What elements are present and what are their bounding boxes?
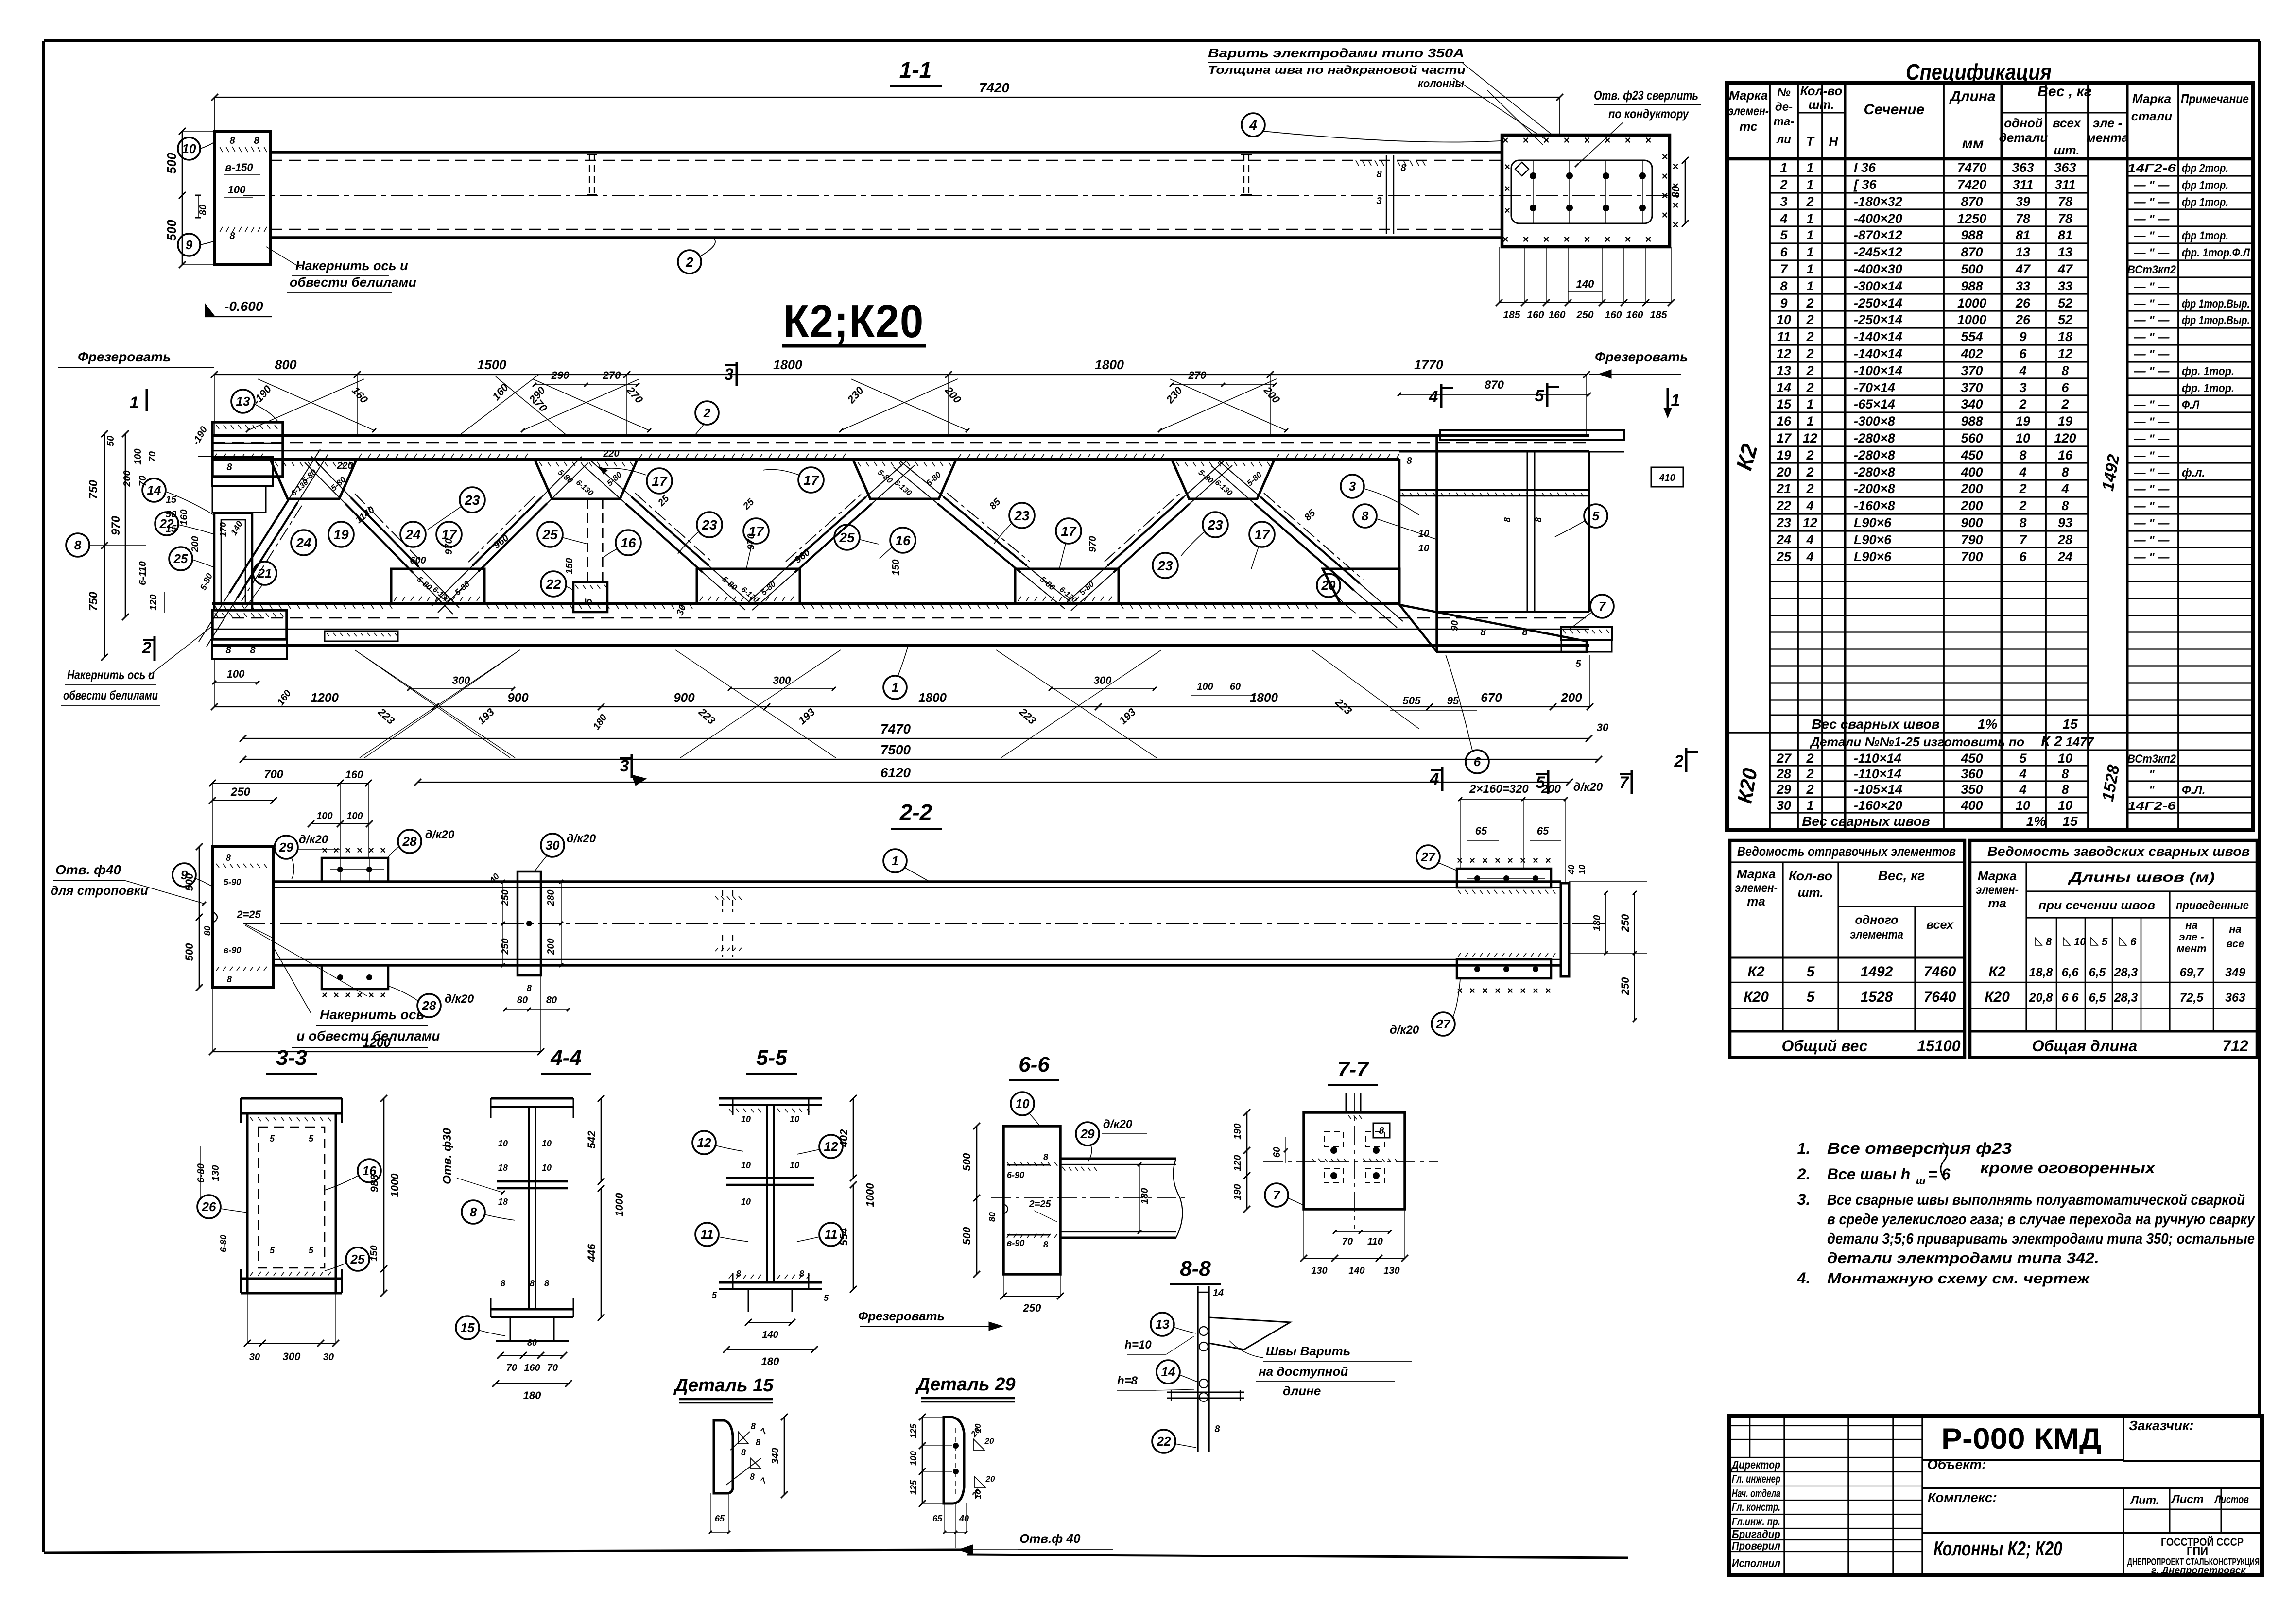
svg-text:L90×6: L90×6 bbox=[1854, 515, 1892, 530]
svg-text:15100: 15100 bbox=[1917, 1037, 1961, 1055]
svg-text:349: 349 bbox=[2225, 966, 2245, 979]
svg-text:-200×8: -200×8 bbox=[1854, 481, 1895, 496]
svg-text:70: 70 bbox=[138, 476, 148, 486]
svg-text:52: 52 bbox=[2058, 296, 2072, 310]
svg-text:4: 4 bbox=[2019, 465, 2026, 479]
svg-text:Ведомость отправочных элемен: Ведомость отправочных элементов bbox=[1737, 844, 1956, 859]
svg-text:29: 29 bbox=[279, 840, 293, 854]
svg-text:6: 6 bbox=[2019, 549, 2027, 564]
svg-text:Н: Н bbox=[1829, 134, 1839, 149]
svg-text:18: 18 bbox=[2058, 329, 2072, 344]
svg-text:Марка: Марка bbox=[1737, 867, 1776, 881]
svg-text:65: 65 bbox=[932, 1514, 943, 1523]
svg-text:ГПИ: ГПИ bbox=[2187, 1545, 2208, 1557]
svg-text:370: 370 bbox=[1961, 363, 1983, 378]
svg-text:15: 15 bbox=[166, 495, 177, 505]
svg-text:— " —: — " — bbox=[2134, 314, 2170, 327]
svg-text:×: × bbox=[1584, 233, 1590, 245]
svg-text:-245×12: -245×12 bbox=[1854, 245, 1902, 259]
svg-text:100: 100 bbox=[346, 811, 363, 821]
svg-text:7500: 7500 bbox=[880, 742, 911, 757]
svg-text:×: × bbox=[1520, 855, 1526, 866]
svg-text:5: 5 bbox=[2019, 751, 2027, 766]
svg-text:22: 22 bbox=[545, 577, 561, 592]
svg-text:5-90: 5-90 bbox=[224, 877, 241, 887]
svg-text:×: × bbox=[1545, 986, 1551, 996]
svg-text:72,5: 72,5 bbox=[2180, 991, 2204, 1005]
svg-text:в-90: в-90 bbox=[1007, 1238, 1025, 1248]
svg-text:в-150: в-150 bbox=[225, 161, 253, 173]
svg-text:1: 1 bbox=[130, 393, 139, 412]
svg-text:1-1: 1-1 bbox=[899, 57, 932, 83]
svg-text:8: 8 bbox=[736, 1269, 741, 1279]
svg-text:— " —: — " — bbox=[2134, 365, 2170, 378]
svg-text:12: 12 bbox=[824, 1139, 838, 1154]
svg-text:×: × bbox=[1625, 233, 1631, 245]
svg-text:та: та bbox=[1747, 894, 1765, 908]
svg-text:Кол-во: Кол-во bbox=[1800, 84, 1843, 98]
svg-text:4: 4 bbox=[2019, 782, 2026, 797]
svg-text:93: 93 bbox=[2058, 515, 2072, 530]
svg-text:Гл. констр.: Гл. констр. bbox=[1732, 1501, 1780, 1513]
svg-text:250: 250 bbox=[1619, 977, 1631, 995]
svg-text:17: 17 bbox=[803, 473, 819, 488]
svg-text:1800: 1800 bbox=[773, 358, 802, 372]
svg-text:×: × bbox=[368, 845, 374, 856]
svg-text:Длина: Длина bbox=[1949, 88, 1995, 104]
svg-text:446: 446 bbox=[586, 1244, 598, 1262]
svg-text:Кол-во: Кол-во bbox=[1789, 869, 1832, 883]
svg-text:200: 200 bbox=[1960, 481, 1983, 496]
svg-text:1: 1 bbox=[1806, 211, 1813, 226]
svg-text:8: 8 bbox=[544, 1279, 549, 1288]
svg-text:×: × bbox=[1673, 219, 1679, 231]
svg-text:8: 8 bbox=[2061, 498, 2069, 513]
svg-text:16: 16 bbox=[895, 533, 911, 548]
svg-text:Ф.Л.: Ф.Л. bbox=[2182, 784, 2206, 797]
svg-text:5-5: 5-5 bbox=[756, 1046, 787, 1070]
svg-text:-0.600: -0.600 bbox=[224, 299, 263, 314]
svg-text:7: 7 bbox=[1599, 599, 1606, 614]
svg-text:500: 500 bbox=[1961, 262, 1983, 276]
svg-text:8: 8 bbox=[1780, 279, 1787, 293]
svg-text:554: 554 bbox=[1961, 329, 1983, 344]
svg-text:125: 125 bbox=[909, 1423, 918, 1438]
svg-text:20,8: 20,8 bbox=[2029, 991, 2053, 1005]
svg-text:19: 19 bbox=[2058, 414, 2072, 428]
svg-text:22: 22 bbox=[1776, 498, 1791, 513]
svg-text:10: 10 bbox=[542, 1139, 552, 1148]
svg-text:-280×8: -280×8 bbox=[1854, 431, 1895, 445]
svg-text:7640: 7640 bbox=[1924, 989, 1956, 1005]
svg-text:160: 160 bbox=[524, 1363, 540, 1373]
svg-text:2.: 2. bbox=[1797, 1165, 1811, 1183]
svg-text:80: 80 bbox=[203, 926, 212, 936]
svg-text:2: 2 bbox=[1806, 751, 1813, 766]
svg-text:100: 100 bbox=[227, 668, 245, 680]
svg-text:К20: К20 bbox=[1985, 989, 2010, 1005]
svg-text:10: 10 bbox=[1016, 1096, 1030, 1111]
svg-text:290: 290 bbox=[551, 369, 570, 381]
svg-text:1: 1 bbox=[892, 680, 898, 695]
svg-text:×: × bbox=[1662, 151, 1668, 163]
svg-text:8: 8 bbox=[741, 1448, 746, 1457]
svg-text:1: 1 bbox=[1806, 160, 1813, 175]
svg-text:24: 24 bbox=[1776, 532, 1791, 547]
svg-text:1000: 1000 bbox=[613, 1193, 625, 1217]
svg-text:детали: детали bbox=[1999, 130, 2048, 145]
svg-text:1: 1 bbox=[1806, 279, 1813, 293]
svg-text:Накернить ось: Накернить ось bbox=[320, 1007, 424, 1022]
svg-text:×: × bbox=[1564, 134, 1570, 146]
svg-text:15: 15 bbox=[1777, 397, 1792, 411]
svg-text:250: 250 bbox=[1023, 1302, 1041, 1314]
svg-text:×: × bbox=[322, 990, 328, 1001]
svg-text:180: 180 bbox=[761, 1355, 779, 1367]
svg-text:160: 160 bbox=[1626, 309, 1643, 321]
svg-text:при сечении швов: при сечении швов bbox=[2038, 899, 2155, 912]
svg-text:6: 6 bbox=[1780, 245, 1788, 259]
svg-text:8: 8 bbox=[2061, 767, 2069, 781]
svg-text:8: 8 bbox=[799, 1269, 804, 1279]
svg-text:370: 370 bbox=[1961, 380, 1983, 395]
svg-text:16: 16 bbox=[1777, 414, 1792, 428]
svg-text:700: 700 bbox=[264, 768, 284, 781]
svg-text:270: 270 bbox=[1188, 369, 1207, 381]
svg-text:350: 350 bbox=[1961, 782, 1983, 797]
svg-text:×: × bbox=[1482, 986, 1488, 996]
svg-text:10: 10 bbox=[2058, 751, 2072, 766]
svg-text:90: 90 bbox=[1450, 620, 1460, 631]
svg-text:14: 14 bbox=[147, 483, 161, 497]
svg-text:×: × bbox=[333, 845, 339, 856]
svg-text:7-7: 7-7 bbox=[1337, 1058, 1369, 1081]
svg-text:50: 50 bbox=[105, 436, 116, 446]
svg-text:2: 2 bbox=[2019, 481, 2026, 496]
svg-text:10: 10 bbox=[1577, 865, 1587, 874]
svg-text:19: 19 bbox=[1777, 448, 1791, 462]
svg-text:Ф.Л: Ф.Л bbox=[2182, 398, 2199, 411]
svg-text:×: × bbox=[1469, 855, 1475, 866]
svg-text:6,6: 6,6 bbox=[2062, 966, 2079, 979]
svg-text:8: 8 bbox=[2061, 465, 2069, 479]
svg-text:11: 11 bbox=[701, 1227, 714, 1242]
svg-text:15: 15 bbox=[2062, 717, 2078, 732]
svg-text:8: 8 bbox=[227, 974, 232, 984]
svg-text:та-: та- bbox=[1774, 115, 1795, 128]
svg-text:11: 11 bbox=[825, 1227, 838, 1242]
svg-text:2: 2 bbox=[2061, 397, 2069, 411]
svg-text:= 6: = 6 bbox=[1928, 1165, 1951, 1183]
svg-text:5: 5 bbox=[584, 598, 594, 604]
svg-text:16: 16 bbox=[2058, 448, 2073, 462]
svg-text:Колонны К2; К20: Колонны К2; К20 bbox=[1933, 1537, 2062, 1560]
svg-text:8: 8 bbox=[226, 462, 232, 473]
svg-text:11: 11 bbox=[1777, 329, 1791, 344]
svg-text:Отв. ф23 сверлить: Отв. ф23 сверлить bbox=[1594, 88, 1698, 103]
svg-text:длине: длине bbox=[1283, 1384, 1321, 1398]
svg-text:65: 65 bbox=[1475, 825, 1487, 837]
svg-text:Детали №№1-25 изготовить по: Детали №№1-25 изготовить по bbox=[1810, 735, 2024, 749]
svg-text:в-90: в-90 bbox=[224, 945, 242, 955]
svg-text:200: 200 bbox=[1560, 690, 1582, 705]
svg-text:4.: 4. bbox=[1797, 1269, 1811, 1287]
svg-text:80: 80 bbox=[546, 995, 557, 1006]
svg-text:×: × bbox=[1625, 134, 1631, 146]
svg-text:2: 2 bbox=[1806, 448, 1813, 462]
svg-text:200: 200 bbox=[190, 536, 201, 552]
svg-text:5: 5 bbox=[2102, 936, 2108, 948]
svg-text:фр 2тор.: фр 2тор. bbox=[2182, 162, 2228, 175]
svg-text:6,5: 6,5 bbox=[2089, 991, 2106, 1005]
svg-text:4: 4 bbox=[2061, 481, 2069, 496]
svg-text:14: 14 bbox=[1213, 1288, 1224, 1298]
svg-text:ВСт3кп2: ВСт3кп2 bbox=[2127, 263, 2176, 276]
svg-text:16: 16 bbox=[621, 535, 636, 550]
svg-text:363: 363 bbox=[2012, 160, 2034, 175]
svg-text:25: 25 bbox=[542, 527, 558, 542]
svg-text:10: 10 bbox=[1418, 529, 1429, 539]
svg-text:×: × bbox=[1533, 986, 1538, 996]
svg-text:Толщина шва по надкрановой: Толщина шва по надкрановой части bbox=[1208, 64, 1466, 77]
svg-text:1: 1 bbox=[1806, 414, 1813, 428]
svg-text:450: 450 bbox=[1960, 751, 1983, 766]
svg-text:300: 300 bbox=[283, 1350, 301, 1363]
svg-text:6-80: 6-80 bbox=[219, 1235, 228, 1252]
svg-text:2: 2 bbox=[1806, 363, 1813, 378]
svg-text:-870×12: -870×12 bbox=[1854, 228, 1902, 242]
svg-text:2: 2 bbox=[1779, 177, 1787, 192]
svg-text:30: 30 bbox=[323, 1352, 334, 1363]
svg-text:18: 18 bbox=[498, 1163, 508, 1173]
svg-text:на доступной: на доступной bbox=[1259, 1364, 1348, 1379]
svg-text:47: 47 bbox=[2057, 262, 2073, 276]
svg-text:300: 300 bbox=[773, 674, 791, 686]
svg-text:в среде углекислого газа;: в среде углекислого газа; в случае перех… bbox=[1827, 1211, 2256, 1228]
svg-text:×: × bbox=[1662, 209, 1668, 221]
svg-text:×: × bbox=[1502, 134, 1509, 146]
svg-text:— " —: — " — bbox=[2134, 297, 2170, 310]
svg-text:×: × bbox=[1584, 134, 1590, 146]
svg-text:×: × bbox=[1673, 160, 1679, 172]
svg-text:фр 1тор.: фр 1тор. bbox=[2182, 196, 2228, 209]
svg-text:— " —: — " — bbox=[2134, 534, 2170, 547]
svg-text:×: × bbox=[333, 990, 339, 1001]
svg-text:30: 30 bbox=[1597, 721, 1609, 734]
svg-text:988: 988 bbox=[368, 1174, 380, 1192]
svg-text:1: 1 bbox=[1806, 798, 1813, 813]
svg-text:21: 21 bbox=[1776, 481, 1791, 496]
svg-text:10: 10 bbox=[973, 1489, 983, 1499]
svg-text:h=10: h=10 bbox=[1124, 1338, 1152, 1351]
svg-text:-65×14: -65×14 bbox=[1854, 397, 1895, 411]
svg-text:6-80: 6-80 bbox=[196, 1163, 207, 1183]
svg-text:363: 363 bbox=[2054, 160, 2076, 175]
svg-text:— " —: — " — bbox=[2134, 483, 2170, 496]
svg-text:5: 5 bbox=[1575, 659, 1581, 669]
svg-text:8: 8 bbox=[1502, 517, 1512, 522]
svg-text:Все швы h: Все швы h bbox=[1827, 1165, 1910, 1183]
svg-text:К2: К2 bbox=[1988, 964, 2005, 980]
svg-text:Деталь 29: Деталь 29 bbox=[915, 1374, 1016, 1395]
svg-text:Т: Т bbox=[1806, 134, 1815, 149]
svg-text:10: 10 bbox=[182, 141, 196, 156]
svg-text:10: 10 bbox=[498, 1139, 508, 1148]
svg-text:14: 14 bbox=[1777, 380, 1791, 395]
svg-text:2: 2 bbox=[2019, 498, 2026, 513]
svg-text:×: × bbox=[380, 990, 386, 1001]
svg-text:10: 10 bbox=[790, 1114, 799, 1124]
svg-text:ш: ш bbox=[1916, 1175, 1926, 1187]
svg-text:125: 125 bbox=[909, 1480, 918, 1495]
svg-text:4: 4 bbox=[1779, 211, 1787, 226]
svg-text:23: 23 bbox=[464, 493, 480, 508]
svg-text:2: 2 bbox=[1806, 194, 1813, 209]
svg-text:L90×6: L90×6 bbox=[1854, 549, 1892, 564]
svg-text:×: × bbox=[1662, 170, 1668, 182]
svg-text:Фрезеровать: Фрезеровать bbox=[1595, 349, 1688, 364]
svg-text:7470: 7470 bbox=[1957, 160, 1986, 175]
svg-text:790: 790 bbox=[1961, 532, 1983, 547]
svg-text:360: 360 bbox=[1961, 767, 1983, 781]
svg-text:Исполнил: Исполнил bbox=[1732, 1557, 1780, 1570]
svg-text:700: 700 bbox=[1961, 549, 1983, 564]
svg-text:33: 33 bbox=[2016, 279, 2030, 293]
svg-text:160: 160 bbox=[179, 509, 190, 525]
svg-text:100: 100 bbox=[228, 184, 246, 196]
svg-text:": " bbox=[2149, 768, 2155, 781]
svg-text:6,5: 6,5 bbox=[2089, 966, 2106, 979]
svg-text:Монтажную схему см. че: Монтажную схему см. чертеж bbox=[1827, 1270, 2090, 1287]
svg-text:5: 5 bbox=[1807, 989, 1815, 1005]
svg-text:988: 988 bbox=[1961, 228, 1983, 242]
svg-text:Фрезеровать: Фрезеровать bbox=[858, 1309, 945, 1323]
svg-text:160: 160 bbox=[345, 769, 363, 781]
svg-text:-400×30: -400×30 bbox=[1854, 262, 1902, 276]
svg-text:— " —: — " — bbox=[2134, 280, 2170, 293]
svg-text:20: 20 bbox=[1321, 578, 1336, 593]
svg-text:150: 150 bbox=[891, 559, 901, 575]
svg-text:25: 25 bbox=[1776, 549, 1792, 564]
svg-text:кроме оговоренных: кроме оговоренных bbox=[1980, 1159, 2156, 1177]
svg-text:8: 8 bbox=[1043, 1152, 1048, 1162]
svg-text:эле -: эле - bbox=[2179, 931, 2204, 943]
svg-text:— " —: — " — bbox=[2134, 500, 2170, 513]
svg-text:12: 12 bbox=[697, 1135, 711, 1150]
svg-text:Общая длина: Общая длина bbox=[2032, 1037, 2138, 1055]
svg-text:×: × bbox=[345, 845, 351, 856]
svg-text:×: × bbox=[1545, 855, 1551, 866]
svg-text:де-: де- bbox=[1775, 101, 1793, 114]
svg-text:Примечание: Примечание bbox=[2181, 91, 2249, 106]
svg-text:65: 65 bbox=[715, 1514, 725, 1523]
svg-text:19: 19 bbox=[333, 527, 349, 542]
svg-text:6120: 6120 bbox=[880, 765, 911, 780]
svg-text:8: 8 bbox=[254, 136, 259, 146]
svg-text:2: 2 bbox=[1806, 296, 1813, 310]
svg-text:24: 24 bbox=[295, 535, 311, 550]
svg-text:120: 120 bbox=[2054, 431, 2076, 445]
svg-text:2: 2 bbox=[703, 406, 711, 420]
svg-text:505: 505 bbox=[1403, 695, 1421, 707]
svg-text:Накернить ось и: Накернить ось и bbox=[295, 258, 408, 273]
svg-text:1: 1 bbox=[1780, 160, 1787, 175]
svg-text:1500: 1500 bbox=[477, 358, 506, 372]
svg-text:-180×32: -180×32 bbox=[1854, 194, 1902, 209]
svg-text:×: × bbox=[1645, 233, 1652, 245]
svg-text:д/к20: д/к20 bbox=[1103, 1118, 1133, 1131]
svg-text:8: 8 bbox=[226, 853, 231, 863]
svg-text:8: 8 bbox=[229, 231, 235, 241]
svg-text:500: 500 bbox=[183, 943, 195, 961]
svg-text:8: 8 bbox=[2046, 936, 2052, 948]
svg-text:-110×14: -110×14 bbox=[1854, 767, 1901, 781]
svg-text:28,3: 28,3 bbox=[2114, 966, 2138, 979]
svg-text:4: 4 bbox=[1806, 532, 1813, 547]
svg-text:150: 150 bbox=[564, 558, 575, 574]
svg-text:33: 33 bbox=[2058, 279, 2072, 293]
svg-text:80: 80 bbox=[1670, 186, 1682, 198]
svg-text:12: 12 bbox=[1803, 515, 1817, 530]
svg-text:23: 23 bbox=[1207, 517, 1223, 532]
svg-text:8: 8 bbox=[1480, 627, 1486, 638]
svg-text:мм: мм bbox=[1962, 136, 1984, 152]
svg-text:Деталь 15: Деталь 15 bbox=[673, 1375, 774, 1396]
svg-text:870: 870 bbox=[1485, 378, 1504, 392]
svg-text:140: 140 bbox=[1348, 1265, 1364, 1276]
svg-text:стали: стали bbox=[2131, 109, 2173, 123]
svg-text:47: 47 bbox=[2015, 262, 2031, 276]
svg-text:40: 40 bbox=[1567, 865, 1576, 875]
svg-text:×: × bbox=[1523, 134, 1529, 146]
svg-text:L90×6: L90×6 bbox=[1854, 532, 1892, 547]
svg-text:870: 870 bbox=[1961, 245, 1983, 259]
svg-text:50: 50 bbox=[166, 509, 176, 520]
svg-text:870: 870 bbox=[1961, 194, 1983, 209]
svg-text:3: 3 bbox=[1780, 194, 1787, 209]
svg-text:×: × bbox=[1543, 233, 1550, 245]
svg-text:5: 5 bbox=[1780, 228, 1788, 242]
svg-text:ли: ли bbox=[1776, 133, 1791, 146]
svg-text:500: 500 bbox=[961, 1153, 973, 1171]
svg-text:10: 10 bbox=[2074, 936, 2086, 948]
svg-text:15: 15 bbox=[2062, 814, 2078, 829]
svg-text:340: 340 bbox=[770, 1448, 781, 1464]
svg-text:10: 10 bbox=[542, 1163, 552, 1173]
svg-text:8: 8 bbox=[1400, 163, 1406, 173]
svg-text:100: 100 bbox=[316, 811, 332, 821]
svg-text:26: 26 bbox=[2015, 312, 2031, 327]
svg-text:712: 712 bbox=[2222, 1037, 2248, 1055]
svg-text:— " —: — " — bbox=[2134, 517, 2170, 530]
svg-text:13: 13 bbox=[236, 394, 250, 409]
svg-text:15: 15 bbox=[166, 524, 177, 534]
svg-text:— " —: — " — bbox=[2134, 449, 2170, 462]
svg-text:д/к20: д/к20 bbox=[425, 828, 455, 841]
svg-text:6-110: 6-110 bbox=[138, 561, 148, 585]
svg-text:280: 280 bbox=[546, 889, 556, 906]
svg-text:78: 78 bbox=[2058, 194, 2072, 209]
svg-text:19: 19 bbox=[2016, 414, 2030, 428]
svg-text:13: 13 bbox=[1156, 1317, 1170, 1332]
svg-text:×: × bbox=[1605, 233, 1611, 245]
svg-text:9: 9 bbox=[2019, 329, 2026, 344]
svg-text:10: 10 bbox=[1777, 312, 1791, 327]
svg-text:80: 80 bbox=[517, 995, 528, 1006]
svg-text:1: 1 bbox=[1806, 228, 1813, 242]
svg-text:×: × bbox=[1495, 986, 1501, 996]
svg-text:6: 6 bbox=[1474, 754, 1481, 769]
